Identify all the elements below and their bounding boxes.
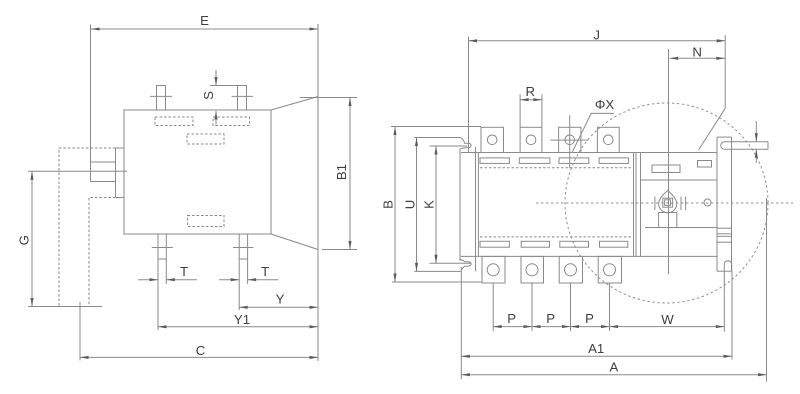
shaft centerline bbox=[28, 170, 127, 172]
section divider lines bbox=[633, 153, 635, 257]
right step side bbox=[731, 137, 733, 271]
dimension C bbox=[80, 250, 318, 362]
svg-text:N: N bbox=[692, 44, 702, 59]
svg-text:Y: Y bbox=[276, 292, 285, 307]
bottom terminal block 2 bbox=[521, 256, 544, 283]
left bracket top plate bbox=[414, 137, 461, 139]
dimension P chain and W bbox=[493, 266, 724, 332]
dimension S bbox=[201, 70, 247, 125]
pole extension stems bbox=[492, 283, 494, 331]
mechanism slot bbox=[652, 165, 680, 173]
lower vent slot 1 bbox=[480, 241, 509, 247]
bottom terminal hole 1 bbox=[487, 264, 499, 276]
dimension T right bbox=[219, 264, 279, 281]
dimension B1 bbox=[300, 98, 357, 250]
right top mounting plate bbox=[721, 142, 768, 150]
upper dashed line bbox=[480, 167, 631, 169]
svg-text:E: E bbox=[200, 13, 209, 28]
dashed slot top-left bbox=[155, 117, 193, 126]
top terminal hole 3 bbox=[565, 135, 575, 145]
svg-text:P: P bbox=[546, 311, 555, 326]
svg-text:U: U bbox=[403, 200, 418, 210]
svg-text:P: P bbox=[507, 311, 516, 326]
bottom terminal hole 2 bbox=[526, 264, 538, 276]
dashed slot center bbox=[187, 134, 224, 144]
top terminal block 4 bbox=[597, 127, 619, 152]
svg-text:A1: A1 bbox=[588, 341, 604, 356]
case outline bottom edge bbox=[461, 255, 717, 257]
terminal 3 crosshair bbox=[550, 139, 588, 141]
upper vent slot 2 bbox=[519, 158, 550, 164]
bottom terminal block 3 bbox=[559, 256, 582, 283]
case left edge bbox=[477, 153, 479, 257]
lower vent slot 3 bbox=[560, 241, 589, 247]
mechanism centerline vertical bbox=[668, 49, 670, 274]
dimension T left bbox=[138, 264, 197, 281]
top terminal hole 4 bbox=[604, 135, 614, 145]
dimension K bbox=[421, 146, 437, 263]
svg-text:B: B bbox=[381, 200, 396, 209]
svg-text:G: G bbox=[17, 235, 32, 245]
padlock teardrop bbox=[659, 191, 677, 213]
top terminal block 3 bbox=[559, 127, 581, 152]
upper vent slot 4 bbox=[599, 158, 629, 164]
padlock outer square bbox=[663, 198, 673, 207]
dimension G bbox=[17, 171, 34, 306]
top terminal block 2 bbox=[520, 127, 542, 152]
upper vent slot 1 bbox=[480, 158, 509, 164]
dimension Y1 bbox=[158, 312, 318, 329]
small circle bbox=[704, 199, 711, 206]
top stud 2 tick bbox=[232, 95, 254, 97]
dimension N bbox=[670, 35, 726, 108]
svg-text:B1: B1 bbox=[334, 164, 349, 180]
bottom stud 2 bbox=[233, 234, 253, 310]
top stud 2 bbox=[238, 86, 247, 111]
dimension Y bbox=[239, 292, 318, 309]
dimension A1 bbox=[461, 271, 732, 359]
padlock inner square bbox=[665, 200, 671, 206]
svg-text:P: P bbox=[585, 311, 594, 326]
right bottom hook bbox=[724, 261, 731, 271]
svg-text:S: S bbox=[201, 91, 216, 100]
plate thickness arrows bbox=[755, 121, 758, 163]
body outline bbox=[124, 110, 271, 234]
dimension E bbox=[91, 13, 319, 182]
flange trapezoid bbox=[271, 97, 318, 250]
horizontal dashed centerline bbox=[536, 202, 793, 204]
dashed handle outline outer bbox=[59, 148, 116, 307]
mounting base line bbox=[28, 306, 102, 308]
svg-text:R: R bbox=[526, 84, 536, 99]
svg-text:W: W bbox=[661, 312, 674, 327]
bottom terminal block 1 bbox=[482, 256, 505, 283]
padlock ticks right bbox=[680, 197, 682, 211]
shaft bbox=[91, 162, 116, 182]
top terminal hole 2 bbox=[526, 135, 536, 145]
case right edge bbox=[716, 137, 718, 271]
dashed slot bottom bbox=[188, 216, 225, 227]
dimension J bbox=[469, 28, 726, 153]
pedestal bbox=[659, 213, 677, 228]
top stud 1 tick bbox=[150, 95, 172, 97]
dashed swing circle bbox=[565, 103, 768, 303]
lower dashed line bbox=[480, 236, 631, 238]
dimension R bbox=[520, 84, 542, 127]
mechanism shelf bottom bbox=[645, 227, 717, 229]
jog extension to tab hole bbox=[699, 108, 726, 150]
left bracket bottom plate bbox=[414, 270, 461, 272]
top terminal block 1 bbox=[481, 127, 504, 152]
svg-text:C: C bbox=[196, 343, 206, 358]
svg-text:ΦX: ΦX bbox=[595, 97, 615, 112]
shaft flange plate bbox=[116, 148, 125, 198]
left bracket channel bbox=[459, 148, 461, 261]
lower vent slot 2 bbox=[521, 241, 549, 247]
bottom terminal block 4 bbox=[598, 256, 621, 283]
dashed slot top-right bbox=[213, 117, 250, 126]
left bracket top curl bbox=[461, 138, 471, 149]
upper vent slot 3 bbox=[559, 158, 589, 164]
dimension A bbox=[461, 198, 766, 382]
top stud 1 bbox=[157, 86, 166, 111]
dimension U bbox=[403, 138, 419, 272]
bottom terminal hole 3 bbox=[565, 264, 577, 276]
right step top bbox=[717, 136, 732, 138]
dashed handle outline inner bbox=[89, 198, 116, 308]
padlock tick left bbox=[654, 197, 656, 211]
label PhiX with leader bbox=[572, 97, 614, 152]
dimension B bbox=[381, 127, 483, 283]
striped ledge bbox=[717, 227, 732, 229]
lower vent slot 4 bbox=[600, 241, 628, 247]
right step bottom bbox=[717, 270, 732, 272]
svg-text:K: K bbox=[421, 200, 436, 209]
left bracket bottom curl bbox=[460, 260, 471, 270]
svg-text:A: A bbox=[610, 360, 619, 375]
svg-text:J: J bbox=[593, 28, 600, 43]
bottom stud 1 bbox=[152, 234, 173, 330]
bottom terminal hole 4 bbox=[604, 264, 616, 276]
case outline top edge bbox=[461, 152, 717, 154]
top terminal hole 1 bbox=[487, 135, 497, 145]
mechanism shelf top bbox=[641, 179, 718, 181]
small rectangle top right bbox=[698, 161, 712, 168]
svg-text:Y1: Y1 bbox=[234, 312, 250, 327]
svg-text:T: T bbox=[180, 264, 188, 279]
svg-text:T: T bbox=[261, 264, 269, 279]
